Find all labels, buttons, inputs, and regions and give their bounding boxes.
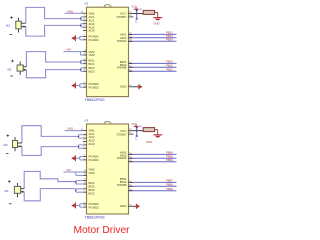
svg-text:BO2: BO2 <box>89 69 95 73</box>
junction AO2 wire U3 <box>78 146 80 148</box>
net label PB07 <box>166 179 173 183</box>
pin 24 stub <box>81 12 87 14</box>
ground symbol near R2 <box>146 135 162 144</box>
svg-text:M2: M2 <box>8 67 12 71</box>
svg-text:PGND1: PGND1 <box>89 38 100 42</box>
wire PGND2 of U2 <box>76 84 87 87</box>
polarity mark + of M2 <box>11 60 13 62</box>
svg-text:STDBY: STDBY <box>116 132 126 136</box>
ground symbol PGND1 of U2 <box>71 35 75 41</box>
junction BO1 wire U3 <box>75 182 77 184</box>
designator M4 <box>5 189 9 193</box>
wire BIN2 of U3 <box>129 185 177 187</box>
pin 17 stub <box>129 181 133 183</box>
svg-text:VM: VM <box>66 168 71 172</box>
pin 12 number <box>84 182 87 184</box>
svg-text:PB12: PB12 <box>166 31 173 35</box>
wire VM2/VM3 of U3 <box>64 172 87 175</box>
svg-text:VM: VM <box>66 48 71 52</box>
wire pin pair AO1 of U3 <box>79 135 87 138</box>
designator M3 <box>4 143 8 147</box>
pin 15 stub <box>129 69 133 71</box>
pin 13 number <box>84 50 87 52</box>
wire VCC pin to resistor R1 <box>134 13 144 15</box>
connector M4 pins <box>21 189 25 193</box>
svg-text:PGND1: PGND1 <box>89 158 100 162</box>
pin 11 number <box>84 58 87 60</box>
svg-text:PB04: PB04 <box>166 151 173 155</box>
pin names left U2 <box>89 12 100 90</box>
svg-text:GND: GND <box>153 21 159 25</box>
svg-text:PB08: PB08 <box>166 183 173 187</box>
pin 1 number <box>84 15 86 17</box>
junction AO1 wire U3 <box>78 136 80 138</box>
svg-text:GND: GND <box>120 85 128 89</box>
pin 7 number <box>84 187 86 189</box>
net label PB11 <box>166 68 173 72</box>
capacitor C label <box>135 137 138 141</box>
svg-text:PB14: PB14 <box>166 38 173 42</box>
junction at VCC wire <box>136 130 138 132</box>
svg-text:STDBY: STDBY <box>116 15 126 19</box>
IC U2 TB6612FNG body <box>87 5 129 97</box>
designator R2 <box>139 126 143 128</box>
wire pin pair BO2 of U3 <box>76 189 87 192</box>
pin 18 GND stub of U3 <box>129 204 133 206</box>
ground symbol PGND1 of U3 <box>71 155 75 161</box>
pin 24 stub <box>81 129 87 131</box>
pin 8 number <box>84 190 86 192</box>
svg-text:PWMA: PWMA <box>117 39 126 43</box>
net label PB08 <box>166 183 173 187</box>
ground symbol PGND2 of U2 <box>71 83 75 89</box>
capacitor C pads <box>136 127 138 137</box>
wire pin pair AO1 of U2 <box>81 17 87 20</box>
pin 3 number <box>84 155 86 157</box>
svg-text:PB10: PB10 <box>166 64 173 68</box>
net label VM1 <box>67 127 73 131</box>
connector M4 body <box>14 183 20 197</box>
polarity mark - of M4 <box>9 203 12 205</box>
svg-text:R1: R1 <box>139 9 143 11</box>
wire VM2/VM3 of U2 <box>64 52 87 55</box>
junction AO2 wire <box>80 25 82 27</box>
pin 7 number <box>84 66 86 68</box>
connector M3 body <box>13 137 18 151</box>
pin 16 stub <box>129 66 133 68</box>
svg-text:VCC: VCC <box>132 123 137 126</box>
pin 14 number <box>84 174 87 176</box>
wire BIN2 of U2 <box>129 66 177 68</box>
svg-text:R2: R2 <box>139 126 143 128</box>
svg-text:GND: GND <box>120 204 128 208</box>
connector M2 pins <box>23 67 26 71</box>
svg-text:PB13: PB13 <box>166 34 173 38</box>
pin 5 number <box>84 143 86 145</box>
svg-text:M3: M3 <box>4 143 8 147</box>
designator R1 <box>139 9 143 11</box>
pin 24 VCC stub of U2 <box>129 12 134 14</box>
pin 18 GND stub of U2 <box>129 85 133 87</box>
pin 3 number <box>84 35 86 37</box>
wire PWMB of U2 <box>129 70 177 72</box>
pin 12 number <box>84 62 87 64</box>
wire pin pair BO1 of U3 <box>76 181 87 184</box>
pin 8 number <box>84 69 86 71</box>
wire PGND1 of U2 <box>76 36 87 39</box>
svg-text:BO2: BO2 <box>89 191 95 195</box>
wire pin pair BO1 of U2 <box>81 60 87 63</box>
wire BIN1 of U2 <box>129 62 177 64</box>
wire PWMA of U2 <box>129 40 177 42</box>
net label PB10 <box>166 64 173 68</box>
svg-text:PB05: PB05 <box>166 155 173 159</box>
title text Motor Driver <box>74 225 131 236</box>
pin 10 number <box>84 205 87 207</box>
connector M3 pins <box>18 143 22 147</box>
wire VCC pin to resistor R2 <box>134 130 144 132</box>
svg-text:VM3: VM3 <box>89 171 96 175</box>
svg-text:C: C <box>135 20 138 24</box>
svg-text:PB11: PB11 <box>166 68 173 72</box>
pin 11 number <box>84 179 87 181</box>
net label PB15 <box>166 60 173 64</box>
pin 13 number <box>84 170 87 172</box>
wire VM1 of U2 <box>65 12 83 14</box>
wire fork motor A of U3 <box>22 126 79 156</box>
pin 7 stub of U2 <box>83 29 87 31</box>
svg-text:AO2: AO2 <box>89 29 95 33</box>
svg-text:PB06: PB06 <box>166 158 173 162</box>
ground symbol at GND pin of U3 <box>136 204 140 209</box>
svg-text:C: C <box>135 137 138 141</box>
wire pin pair AO2 of U3 <box>79 145 87 148</box>
wire fork motor B of U3 <box>24 171 76 200</box>
junction AO1 wire <box>80 18 82 20</box>
pin 21 stub <box>129 153 133 155</box>
resistor R2 <box>143 128 154 132</box>
svg-text:M1: M1 <box>6 24 10 28</box>
pin names left U3 <box>89 128 100 209</box>
wire AIN1 of U3 <box>129 153 177 155</box>
svg-text:GND: GND <box>146 140 152 144</box>
connector M1 body <box>16 18 21 33</box>
ground symbol near R1 <box>153 18 162 26</box>
pin 5 number <box>84 22 86 24</box>
polarity mark + of M4 <box>8 180 10 182</box>
net label PB04 <box>166 151 173 155</box>
wire VM1 of U3 <box>65 130 83 132</box>
pin 15 stub <box>129 189 133 191</box>
resistor R1 <box>143 10 154 14</box>
wire AIN2 of U2 <box>129 37 177 39</box>
net label PB14 <box>166 38 173 42</box>
svg-text:U3: U3 <box>84 118 88 122</box>
ground symbol at GND pin of U2 <box>139 84 143 89</box>
IC U3 TB6612FNG body <box>87 121 129 214</box>
pin 17 stub <box>129 62 133 64</box>
polarity mark - of M1 <box>10 34 13 36</box>
wire PWMA of U3 <box>129 161 177 163</box>
svg-text:PWMB: PWMB <box>117 66 126 70</box>
junction BO2 wire U3 <box>75 190 77 192</box>
pin 2 number <box>84 136 86 138</box>
polarity mark - of M3 <box>6 153 9 155</box>
svg-text:PB15: PB15 <box>166 60 173 64</box>
net label VM <box>66 48 71 52</box>
pin 21 stub <box>129 33 133 35</box>
svg-text:M4: M4 <box>5 189 9 193</box>
designator M1 <box>6 24 10 28</box>
capacitor C pads <box>136 10 138 20</box>
pin 23 STBY stub of U2 <box>129 15 134 17</box>
pin 7 stub of U3 <box>83 140 87 142</box>
wire AIN2 of U3 <box>129 157 177 159</box>
junction BO2 wire <box>80 69 82 71</box>
svg-text:Motor Driver: Motor Driver <box>74 225 131 236</box>
pin 22 stub <box>129 36 133 38</box>
net label PB13 <box>166 34 173 38</box>
value label TB6612FNG <box>85 216 105 220</box>
svg-text:VCC: VCC <box>132 6 137 9</box>
wire pin pair AO2 of U2 <box>81 24 87 27</box>
svg-text:VM3: VM3 <box>89 53 96 57</box>
wire VCC vertical <box>136 127 138 136</box>
pin 14 number <box>84 53 87 55</box>
wire AIN1 of U2 <box>129 33 177 35</box>
pin 24 VCC stub of U3 <box>129 129 134 131</box>
svg-text:PGND2: PGND2 <box>89 205 100 209</box>
polarity mark + of M3 <box>7 134 9 136</box>
wire VCC vertical <box>136 9 138 18</box>
pin 23 stub <box>129 160 133 162</box>
net label VM1 <box>67 9 73 13</box>
designator M2 <box>8 67 12 71</box>
connector M1 pins <box>21 23 26 28</box>
polarity mark + of M1 <box>10 16 12 18</box>
connector M2 body <box>17 62 23 75</box>
designator U3 <box>84 118 88 122</box>
wire BIN1 of U3 <box>129 181 177 183</box>
pin 2 number <box>84 18 86 20</box>
pin names right U3 <box>116 129 127 208</box>
pin 16 stub <box>129 185 133 187</box>
net label VM <box>66 168 71 172</box>
junction BO1 wire <box>80 61 82 63</box>
svg-text:TB6612FNG: TB6612FNG <box>85 216 105 220</box>
wire PGND2 of U3 <box>76 204 87 207</box>
wire resistor R1 to ground <box>155 12 158 17</box>
svg-text:PB09: PB09 <box>166 187 173 191</box>
pin 4 number <box>84 38 86 40</box>
pin 6 number <box>84 146 86 148</box>
polarity mark - of M2 <box>10 75 13 77</box>
pin names right U2 <box>116 12 127 89</box>
wire fork motor B of U2 <box>26 52 80 78</box>
wire PWMB of U3 <box>129 190 177 192</box>
pin 22 stub <box>129 156 133 158</box>
net label PB05 <box>166 155 173 159</box>
svg-text:PWMA: PWMA <box>117 156 126 160</box>
svg-text:VM1: VM1 <box>67 9 73 13</box>
wire GND pin of U2 <box>133 86 139 88</box>
pin 23 stub <box>129 40 133 42</box>
wire PGND1 of U3 <box>76 157 87 160</box>
pin 6 number <box>84 25 86 27</box>
svg-text:PGND2: PGND2 <box>89 85 100 89</box>
value label TB6612FNG <box>85 98 105 102</box>
wire GND pin of U3 <box>133 205 137 207</box>
pin 10 number <box>84 85 87 87</box>
svg-text:PWMB: PWMB <box>117 183 126 187</box>
pin 9 number <box>84 82 86 84</box>
ground symbol PGND2 of U3 <box>71 203 75 209</box>
net label PB12 <box>166 31 173 35</box>
wire fork motor A of U2 <box>26 7 81 36</box>
pin 1 number <box>84 133 86 135</box>
pin 4 number <box>84 158 86 160</box>
svg-text:TB6612FNG: TB6612FNG <box>85 98 105 102</box>
svg-text:U2: U2 <box>84 2 88 6</box>
wire resistor R2 to ground <box>155 130 158 135</box>
net label PB09 <box>166 187 173 191</box>
svg-text:PB07: PB07 <box>166 179 173 183</box>
svg-text:AO2: AO2 <box>89 142 95 146</box>
designator U2 <box>84 2 88 6</box>
power VCC symbol <box>132 123 139 127</box>
power VCC symbol <box>132 6 139 10</box>
capacitor C label <box>135 20 138 24</box>
net label PB06 <box>166 158 173 162</box>
svg-text:VM1: VM1 <box>67 127 73 131</box>
pin 9 number <box>84 202 86 204</box>
pin 23 STBY stub of U3 <box>129 132 134 134</box>
junction at VCC wire <box>136 13 138 15</box>
wire pin pair BO2 of U2 <box>81 68 87 71</box>
